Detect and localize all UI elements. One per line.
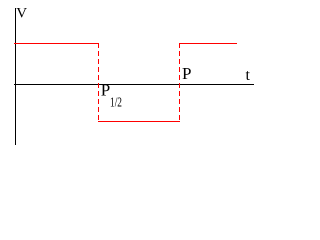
svg-text:1/2: 1/2 — [110, 96, 122, 111]
svg-text:t: t — [246, 67, 251, 84]
svg-text:P: P — [101, 81, 110, 100]
svg-text:P: P — [182, 64, 191, 83]
svg-text:V: V — [16, 6, 27, 22]
